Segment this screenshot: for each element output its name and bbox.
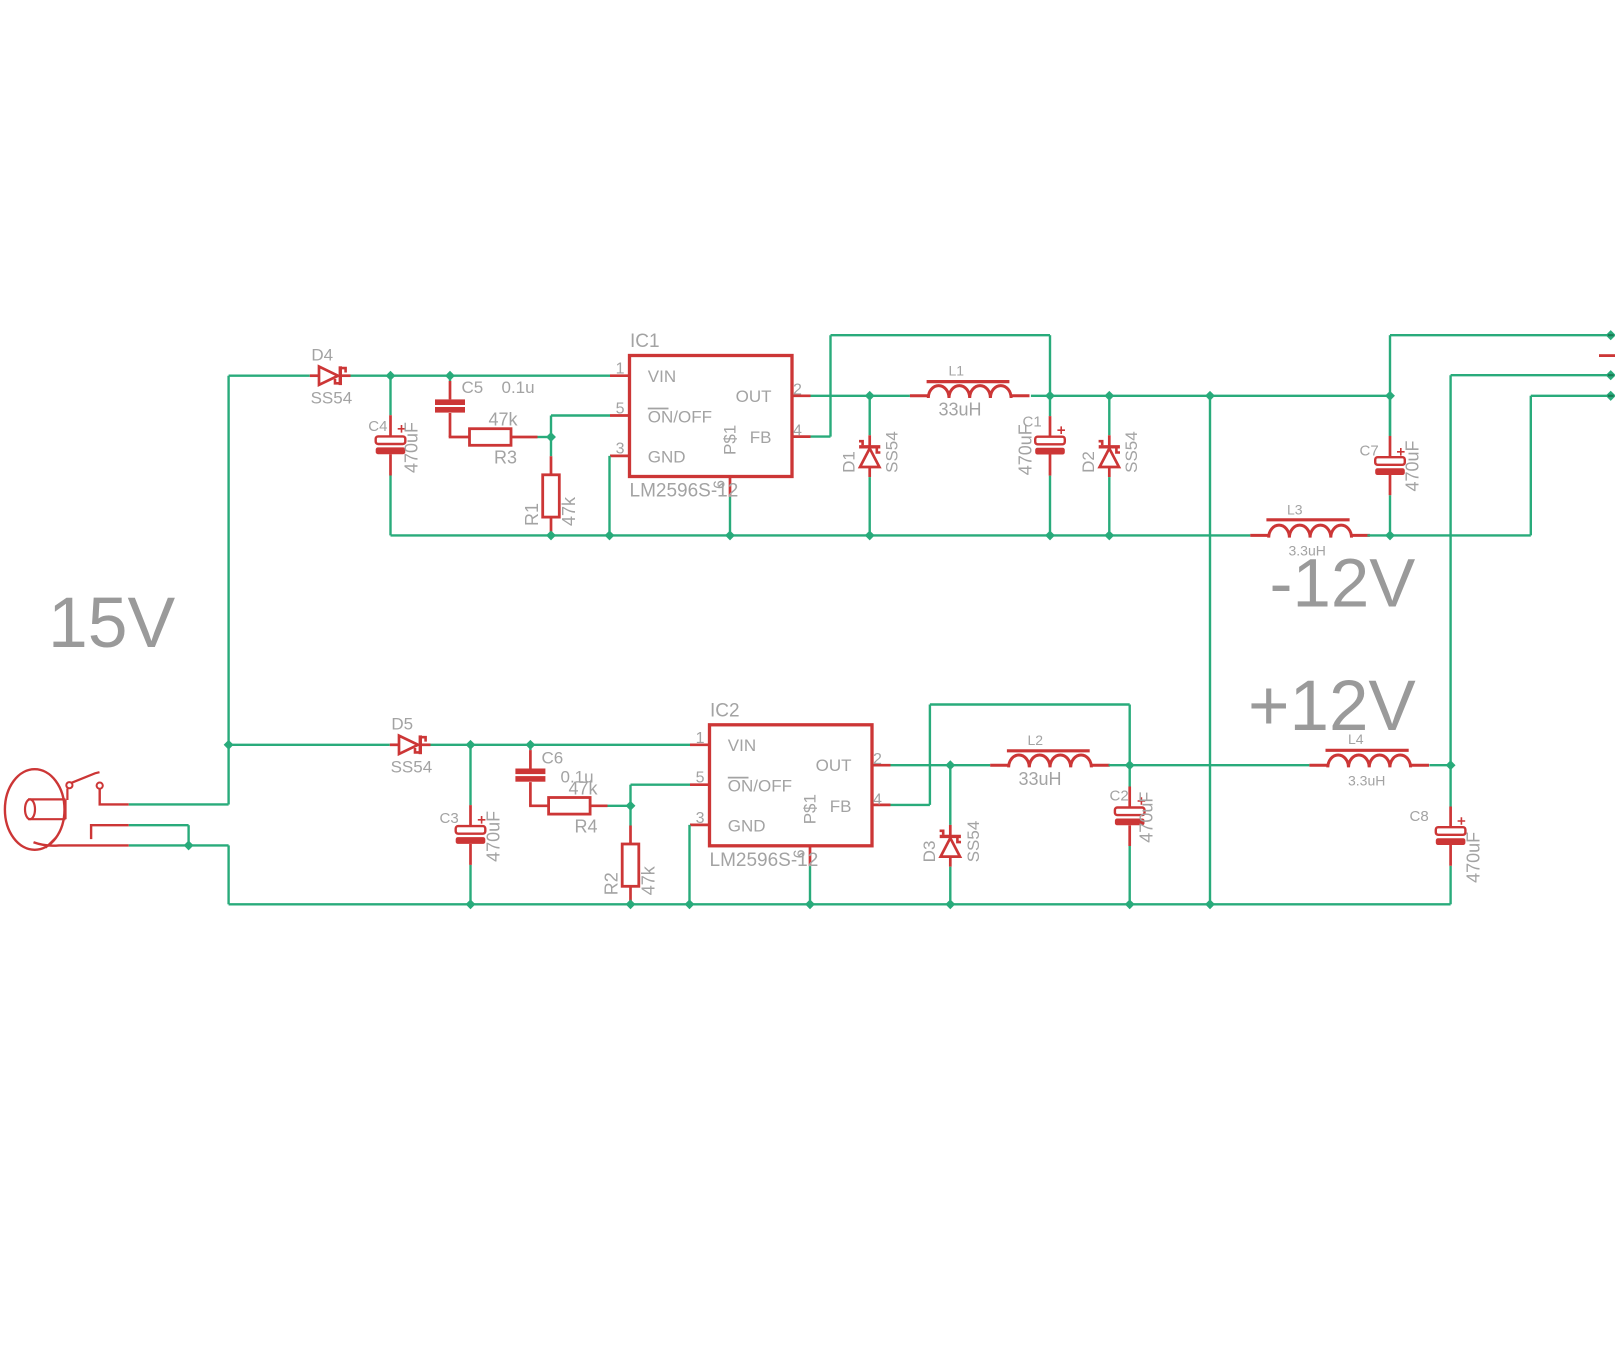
capacitor C7 (polarized 470uF) — [1375, 436, 1405, 495]
capacitor C5 (0.1u film) — [435, 399, 465, 412]
IC2 pin 5 ON/OFF lead — [690, 783, 711, 786]
junction R1/rail — [546, 530, 556, 540]
wire jack switch pin — [129, 824, 189, 826]
wire D5 cathode to IC2 VIN — [431, 744, 691, 746]
connector X1 DC barrel jack — [5, 769, 129, 850]
wire D1 bottom — [869, 477, 871, 535]
svg-text:5: 5 — [616, 400, 625, 417]
wire C4 top — [389, 376, 391, 416]
wire C1 bottom — [1049, 476, 1051, 536]
svg-text:1: 1 — [616, 361, 625, 378]
junction D2/rail — [1104, 530, 1114, 540]
wire C7 top — [1389, 396, 1391, 436]
svg-text:C7: C7 — [1360, 443, 1379, 460]
wire FB loop top — [930, 703, 1130, 705]
junction C1/rail — [1045, 530, 1055, 540]
IC IC1 LM2596S-12 body — [630, 356, 793, 477]
junction C3/gnd — [466, 899, 476, 909]
svg-text:470uF: 470uF — [1403, 440, 1423, 491]
svg-text:FB: FB — [830, 797, 852, 816]
capacitor C4 (polarized 470uF) — [376, 415, 406, 475]
svg-text:FB: FB — [750, 428, 772, 447]
wire C3 top — [469, 745, 471, 805]
svg-text:3.3uH: 3.3uH — [1289, 543, 1326, 559]
svg-text:IC2: IC2 — [710, 700, 740, 721]
wire L3 to -12V riser — [1367, 534, 1530, 536]
svg-text:D1: D1 — [840, 451, 859, 473]
svg-text:470uF: 470uF — [1016, 424, 1036, 475]
wire L4 to C8 — [1429, 764, 1450, 766]
svg-text:C6: C6 — [542, 749, 564, 768]
svg-text:GND: GND — [728, 817, 766, 836]
wire FB out — [891, 804, 930, 806]
svg-text:1: 1 — [696, 730, 705, 747]
diode D3 (SS54 schottky, cathode up) — [940, 825, 961, 867]
wire C8 bottom — [1449, 866, 1451, 905]
svg-text:P$1: P$1 — [801, 794, 820, 824]
svg-text:6: 6 — [712, 480, 729, 489]
wire to IC2 ON/OFF pin — [631, 784, 691, 786]
capacitor C2 (polarized 470uF) — [1115, 787, 1145, 847]
svg-text:47k: 47k — [569, 778, 599, 798]
resistor R2 (47k vertical) — [622, 844, 639, 886]
svg-text:470uF: 470uF — [1464, 832, 1484, 883]
junction C3/VIN — [466, 740, 476, 750]
junction IC2 tab/gnd — [805, 899, 815, 909]
svg-text:2: 2 — [793, 382, 802, 399]
wire L2 to C2 — [1109, 764, 1130, 766]
junction R1/R3/ON-OFF — [546, 432, 556, 442]
IC2 pin 2 OUT lead — [871, 764, 891, 767]
capacitor C8 (polarized 470uF) — [1436, 807, 1466, 866]
IC1 pin 2 OUT lead — [791, 394, 811, 397]
wire FB loop top — [831, 334, 1051, 336]
svg-text:SS54: SS54 — [391, 758, 433, 777]
wire -12V rail — [391, 534, 1251, 536]
R2 top lead — [629, 826, 632, 846]
svg-text:33uH: 33uH — [1019, 769, 1062, 789]
svg-text:L1: L1 — [949, 363, 965, 379]
inductor L1 (33uH) — [910, 382, 1030, 398]
diode D1 (SS54 schottky, cathode up) — [859, 435, 880, 477]
wire GND output — [1390, 334, 1611, 336]
wire ground rail — [229, 903, 1451, 905]
R1 top lead — [550, 456, 553, 476]
wire D3 top — [949, 765, 951, 825]
resistor R4 (47k horizontal) — [549, 798, 591, 815]
svg-text:D4: D4 — [311, 346, 333, 365]
wire junction up — [550, 416, 552, 438]
capacitor C6 (0.1u film) — [515, 769, 545, 782]
resistor R1 (47k vertical) — [543, 475, 560, 517]
svg-text:470uF: 470uF — [402, 422, 422, 473]
svg-text:ON/OFF: ON/OFF — [728, 776, 792, 795]
junction C2/OUT — [1125, 760, 1135, 770]
wire IC1 GND to rail — [608, 456, 610, 536]
svg-text:2: 2 — [873, 751, 882, 768]
IC2 pin 4 FB lead — [871, 804, 891, 807]
junction jack gnd — [184, 840, 194, 850]
junction C6/VIN — [525, 740, 535, 750]
junction tab/rail — [725, 530, 735, 540]
wire FB loop down to C1 — [1049, 335, 1051, 396]
junction C7/rail — [1385, 530, 1395, 540]
svg-text:3: 3 — [696, 810, 705, 827]
wire junction up — [629, 785, 631, 806]
svg-text:SS54: SS54 — [1122, 431, 1141, 473]
wire D3 bottom — [949, 867, 951, 905]
svg-text:L2: L2 — [1028, 732, 1044, 748]
wire C2 top — [1128, 765, 1130, 786]
wire IC1 tab to rail — [729, 497, 731, 536]
svg-text:C5: C5 — [462, 378, 484, 397]
IC IC2 LM2596S-12 body — [710, 725, 873, 846]
junction GND/rail — [605, 530, 615, 540]
wire GND riser (output common) — [1209, 396, 1211, 905]
svg-text:R2: R2 — [601, 872, 621, 895]
svg-text:C3: C3 — [440, 810, 459, 827]
C6 leads — [529, 750, 532, 768]
wire IC2 OUT to L2 — [891, 764, 991, 766]
svg-text:3.3uH: 3.3uH — [1348, 773, 1385, 789]
capacitor C3 (polarized 470uF) — [456, 805, 486, 865]
junction 15V vertical/D5 — [224, 740, 234, 750]
IC2 tab pin 6 lead — [809, 846, 812, 866]
svg-text:4: 4 — [873, 792, 882, 809]
junction D3/gnd — [945, 899, 955, 909]
resistor R3 (47k horizontal) — [470, 429, 512, 446]
junction D3/OUT — [945, 760, 955, 770]
junction GND riser/gnd — [1205, 899, 1215, 909]
svg-text:R3: R3 — [494, 448, 517, 468]
IC1 pin 3 GND lead — [610, 455, 631, 458]
svg-text:L3: L3 — [1287, 502, 1303, 518]
wire -12V output — [1531, 395, 1611, 397]
IC2 pin 1 VIN lead — [690, 743, 711, 746]
wire FB loop down to C2 — [1128, 705, 1130, 766]
port GND output pin — [1606, 330, 1615, 340]
svg-text:D2: D2 — [1079, 451, 1098, 473]
svg-text:470uF: 470uF — [1137, 792, 1157, 843]
wire junction to R1 — [550, 437, 552, 456]
wire C6 top — [529, 745, 531, 750]
inductor L4 (3.3uH) — [1309, 750, 1429, 767]
junction R2/R4/ON-OFF — [626, 801, 636, 811]
svg-text:SS54: SS54 — [964, 821, 983, 863]
port -12V output pin — [1606, 391, 1615, 401]
junction R2/gnd — [626, 899, 636, 909]
diode D4 (SS54 schottky, horizontal) — [310, 366, 351, 385]
svg-text:L4: L4 — [1348, 731, 1364, 747]
svg-text:47k: 47k — [559, 496, 579, 526]
C5 leads — [449, 381, 452, 399]
svg-text:+12V: +12V — [1248, 667, 1416, 746]
wire R3 to junction — [538, 436, 552, 438]
wire jack sleeve — [129, 844, 189, 846]
svg-text:470uF: 470uF — [484, 811, 504, 862]
wire C7 bottom — [1389, 495, 1391, 535]
svg-text:4: 4 — [793, 422, 802, 439]
connector pin stub — [1599, 354, 1615, 357]
svg-text:OUT: OUT — [736, 387, 772, 406]
IC1 pin 1 VIN lead — [610, 374, 631, 377]
wire D4 cathode to IC1 VIN — [351, 375, 611, 377]
wire +12V riser — [1449, 375, 1451, 765]
junction C1/OUT — [1045, 391, 1055, 401]
wire C4 bottom — [389, 476, 391, 536]
svg-text:ON/OFF: ON/OFF — [648, 407, 712, 426]
wire C1 junction to GND corner — [1050, 395, 1210, 397]
junction D1/rail — [865, 530, 875, 540]
wire GND up — [1389, 335, 1391, 396]
diode D2 (SS54 schottky, cathode up) — [1099, 435, 1120, 477]
wire junction to R2 — [629, 806, 631, 826]
svg-text:D3: D3 — [920, 841, 939, 863]
svg-text:15V: 15V — [48, 583, 176, 663]
junction D2/OUT — [1104, 391, 1114, 401]
R3 leads — [511, 436, 538, 439]
inductor L2 (33uH) — [990, 751, 1110, 768]
inductor L3 (3.3uH) — [1250, 520, 1370, 538]
R4 leads — [590, 804, 607, 807]
wire jack tip to 15V — [129, 803, 229, 805]
wire IC2 GND to rail — [688, 825, 690, 904]
svg-text:SS54: SS54 — [311, 389, 353, 408]
svg-text:SS54: SS54 — [883, 431, 902, 473]
wire D2 top — [1108, 396, 1110, 436]
svg-text:R1: R1 — [522, 503, 542, 526]
wire left vertical 15V — [227, 376, 229, 805]
diode D5 (SS54 schottky, horizontal) — [390, 735, 431, 754]
wire FB out — [811, 435, 831, 437]
wire L1 to C1 — [1031, 395, 1050, 397]
wire 15V rail to D4 anode — [229, 375, 310, 377]
svg-text:33uH: 33uH — [939, 400, 982, 420]
IC1 pin 4 FB lead — [791, 435, 811, 438]
junction IC2 GND/gnd — [685, 899, 695, 909]
junction C7/GND — [1385, 391, 1395, 401]
wire C5 top — [449, 376, 451, 381]
junction GND riser top — [1205, 391, 1215, 401]
svg-text:VIN: VIN — [648, 367, 676, 386]
wire 15V to D5 anode — [229, 744, 390, 746]
port +12V output pin — [1606, 370, 1615, 380]
svg-text:GND: GND — [648, 447, 686, 466]
wire C1 top — [1049, 396, 1051, 416]
svg-text:D5: D5 — [391, 715, 413, 734]
wire GND to C7 top — [1210, 395, 1390, 397]
wire FB loop up — [829, 335, 831, 436]
wire +12V output — [1451, 374, 1611, 376]
svg-text:C2: C2 — [1110, 788, 1129, 805]
wire IC2 tab to rail — [809, 866, 811, 904]
R2 bottom lead — [629, 886, 632, 904]
IC2 pin 3 GND lead — [690, 824, 711, 827]
wire C2 to L4 — [1130, 764, 1310, 766]
junction C5/VIN — [445, 371, 455, 381]
R1 bottom lead — [550, 517, 553, 535]
svg-text:47k: 47k — [639, 865, 659, 895]
svg-text:IC1: IC1 — [630, 331, 660, 352]
svg-text:3: 3 — [616, 441, 625, 458]
svg-text:6: 6 — [792, 849, 809, 858]
svg-text:47k: 47k — [489, 410, 519, 430]
svg-text:P$1: P$1 — [721, 425, 740, 455]
svg-text:R4: R4 — [575, 816, 598, 836]
svg-text:VIN: VIN — [728, 736, 756, 755]
junction D1/OUT — [865, 391, 875, 401]
IC1 tab pin 6 lead — [729, 477, 732, 497]
wire -12V riser — [1530, 396, 1532, 536]
capacitor C1 (polarized 470uF) — [1035, 416, 1065, 476]
junction C8/+12V — [1446, 760, 1456, 770]
wire R4 to junction — [608, 805, 631, 807]
wire C7 top — [1389, 396, 1391, 436]
wire C8 top — [1449, 765, 1451, 806]
svg-text:C4: C4 — [368, 418, 387, 435]
wire C2 bottom — [1128, 846, 1130, 904]
junction C2/gnd — [1125, 899, 1135, 909]
junction C4/VIN — [386, 371, 396, 381]
svg-text:0.1u: 0.1u — [502, 378, 535, 397]
wire jack gnd down to rail — [227, 845, 229, 904]
svg-text:C8: C8 — [1410, 808, 1429, 825]
wire IC1 OUT to L1 — [811, 395, 910, 397]
IC1 pin 5 ON/OFF lead — [610, 414, 631, 417]
wire D1 top — [869, 396, 871, 436]
wire to IC1 ON/OFF pin — [551, 414, 610, 416]
wire C3 bottom — [469, 865, 471, 904]
wire jack switch down — [187, 825, 189, 845]
wire D2 bottom — [1108, 477, 1110, 535]
svg-text:5: 5 — [696, 770, 705, 787]
svg-text:OUT: OUT — [816, 756, 852, 775]
wire FB loop up — [929, 705, 931, 805]
wire jack gnd right — [189, 844, 229, 846]
